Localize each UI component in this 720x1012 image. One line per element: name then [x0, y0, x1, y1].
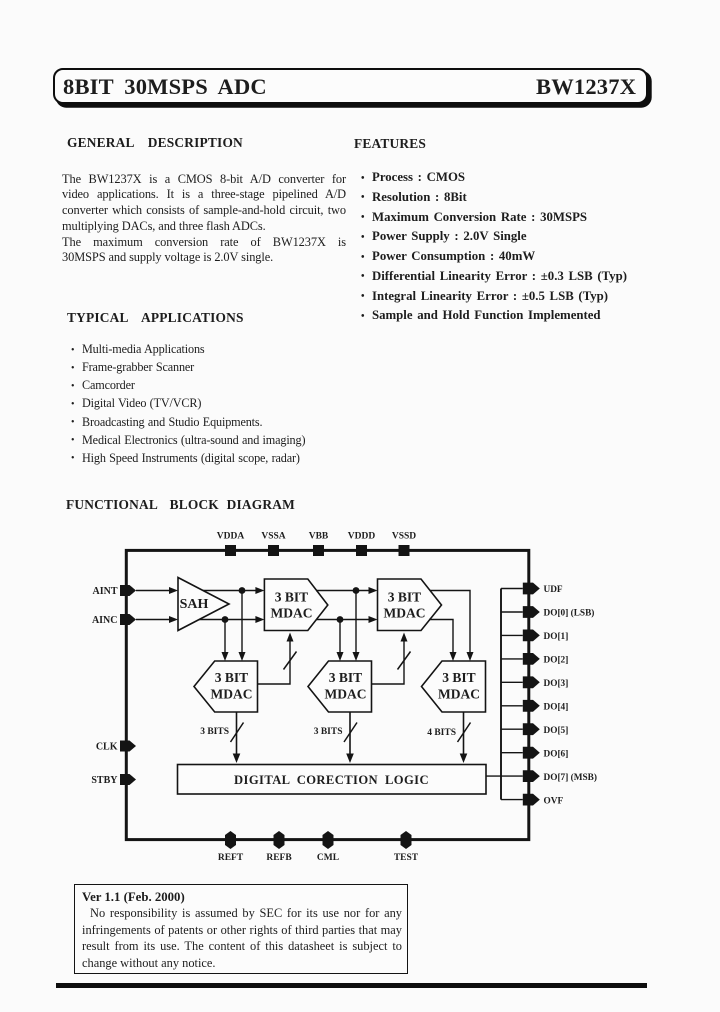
bus slash L2 feedback — [398, 652, 411, 670]
pin DO2 — [523, 653, 568, 666]
svg-text:3 BIT: 3 BIT — [275, 590, 308, 605]
section: functional block diagram heading — [66, 497, 295, 513]
pin VDDD — [348, 532, 376, 557]
svg-text:4 BITS: 4 BITS — [427, 728, 456, 738]
pin REFB — [266, 831, 292, 863]
pin DO7 — [523, 770, 597, 783]
svg-text:TEST: TEST — [394, 853, 419, 863]
wire AINC to SAH — [136, 616, 178, 623]
block MDAC L1 — [194, 661, 258, 712]
svg-text:VBB: VBB — [309, 532, 329, 542]
section: typical applications — [67, 310, 244, 326]
pin DO3 — [523, 676, 568, 689]
svg-text:DO[6]: DO[6] — [544, 749, 569, 759]
block DCL digital corection logic — [178, 765, 487, 795]
svg-text:3 BIT: 3 BIT — [442, 670, 475, 685]
junction dot node B2 — [337, 616, 344, 623]
wire MDAC L3 to DCL 4 bits — [460, 712, 468, 763]
bus slash L1 out — [231, 723, 244, 743]
junction dot node B1 — [222, 616, 229, 623]
wire MDAC L2 feedback to MDAC U2 — [372, 633, 408, 685]
svg-text:VDDD: VDDD — [348, 532, 376, 542]
wire stub DO0 — [501, 611, 523, 613]
pin DO6 — [523, 747, 568, 760]
svg-text:3 BITS: 3 BITS — [314, 727, 343, 737]
section: features — [354, 136, 426, 152]
wire MDAC L1 feedback to MDAC U1 — [258, 633, 294, 685]
pin DO5 — [523, 723, 568, 736]
wire drop T1 to MDAC L1 — [239, 591, 246, 662]
pin TEST — [394, 831, 419, 863]
svg-text:3 BIT: 3 BIT — [329, 670, 362, 685]
svg-text:MDAC: MDAC — [438, 687, 480, 702]
wire MDAC L1 to DCL 3 bits — [233, 712, 241, 763]
wire MDAC U2 top output to MDAC L3 — [430, 591, 474, 662]
svg-text:REFT: REFT — [218, 853, 244, 863]
svg-text:SAH: SAH — [180, 597, 209, 612]
svg-text:VSSD: VSSD — [392, 532, 416, 542]
pin UDF — [523, 583, 563, 596]
bus slash L2 out — [344, 723, 357, 743]
bottom rule bar — [56, 983, 647, 988]
svg-text:DO[1]: DO[1] — [544, 632, 569, 642]
wire drop T2 to MDAC L2 — [353, 591, 360, 662]
bus slash L1 feedback — [284, 652, 297, 670]
pin DO0 — [523, 606, 595, 619]
wire drop B1 to MDAC L1 — [222, 620, 229, 662]
wire MDAC U1 top output to MDAC U2 — [316, 587, 378, 594]
svg-text:DO[4]: DO[4] — [544, 703, 569, 713]
svg-text:VDDA: VDDA — [217, 532, 245, 542]
wire SAH top output to MDAC U1 — [203, 587, 264, 594]
pin AINT — [92, 585, 136, 597]
svg-text:DO[3]: DO[3] — [544, 679, 569, 689]
footer disclaimer box — [74, 884, 408, 974]
wire stub UDF — [501, 588, 523, 590]
svg-text:DO[7] (MSB): DO[7] (MSB) — [544, 772, 597, 783]
pin DO1 — [523, 630, 568, 643]
svg-text:3 BIT: 3 BIT — [215, 670, 248, 685]
wire AINT to SAH — [136, 587, 178, 594]
header title box — [53, 68, 648, 104]
wire stub DO6 — [501, 752, 523, 754]
pin REFT — [218, 831, 244, 863]
wire MDAC U2 bottom output to MDAC L3 — [429, 620, 457, 662]
wire MDAC L2 to DCL 3 bits — [346, 712, 354, 763]
bus slash L3 out — [458, 723, 471, 743]
svg-text:OVF: OVF — [544, 796, 564, 806]
svg-text:3 BITS: 3 BITS — [200, 727, 229, 737]
pin DO4 — [523, 700, 568, 713]
svg-text:DO[5]: DO[5] — [544, 726, 569, 736]
outer boundary box — [126, 550, 529, 839]
wire stub DO3 — [501, 681, 523, 683]
wire stub DO1 — [501, 634, 523, 636]
svg-text:REFB: REFB — [266, 853, 292, 863]
wire drop B2 to MDAC L2 — [337, 620, 344, 662]
wire SAH bottom output to MDAC U1 — [199, 616, 264, 623]
svg-text:MDAC: MDAC — [271, 606, 313, 621]
pin VBB — [309, 532, 329, 557]
svg-text:AINC: AINC — [92, 615, 118, 626]
pin VSSA — [261, 532, 285, 557]
svg-text:STBY: STBY — [91, 775, 118, 786]
pin OVF — [523, 794, 564, 807]
svg-text:MDAC: MDAC — [384, 606, 426, 621]
block MDAC L2 — [308, 661, 372, 712]
svg-text:DO[2]: DO[2] — [544, 656, 569, 666]
wire output bus vertical — [500, 589, 502, 800]
pin CML — [317, 831, 339, 863]
pin CLK — [96, 741, 136, 753]
wire stub DO5 — [501, 728, 523, 730]
block MDAC U2 — [378, 579, 442, 631]
pin AINC — [92, 614, 136, 626]
svg-text:CLK: CLK — [96, 742, 118, 753]
svg-text:DO[0] (LSB): DO[0] (LSB) — [544, 608, 595, 619]
block MDAC L3 — [422, 661, 486, 712]
svg-text:CML: CML — [317, 853, 339, 863]
svg-text:DIGITAL CORECTION LOGIC: DIGITAL CORECTION LOGIC — [234, 773, 429, 787]
junction dot node T2 — [353, 587, 360, 594]
wire DCL to DO7 pin — [486, 775, 523, 777]
op-amp SAH — [178, 578, 229, 631]
block MDAC U1 — [264, 579, 327, 631]
svg-text:MDAC: MDAC — [325, 687, 367, 702]
wire stub DO2 — [501, 658, 523, 660]
pin VSSD — [392, 532, 416, 557]
wire MDAC U1 bottom output to MDAC U2 — [316, 616, 378, 623]
svg-text:MDAC: MDAC — [211, 687, 253, 702]
section: general description — [67, 135, 243, 151]
svg-text:3 BIT: 3 BIT — [388, 590, 421, 605]
wire stub DO4 — [501, 705, 523, 707]
junction dot node T1 — [239, 587, 246, 594]
pin STBY — [91, 774, 136, 786]
svg-text:VSSA: VSSA — [261, 532, 285, 542]
svg-text:UDF: UDF — [544, 585, 563, 595]
wire stub OVF — [501, 799, 523, 801]
svg-text:AINT: AINT — [92, 586, 117, 597]
pin VDDA — [217, 532, 245, 557]
